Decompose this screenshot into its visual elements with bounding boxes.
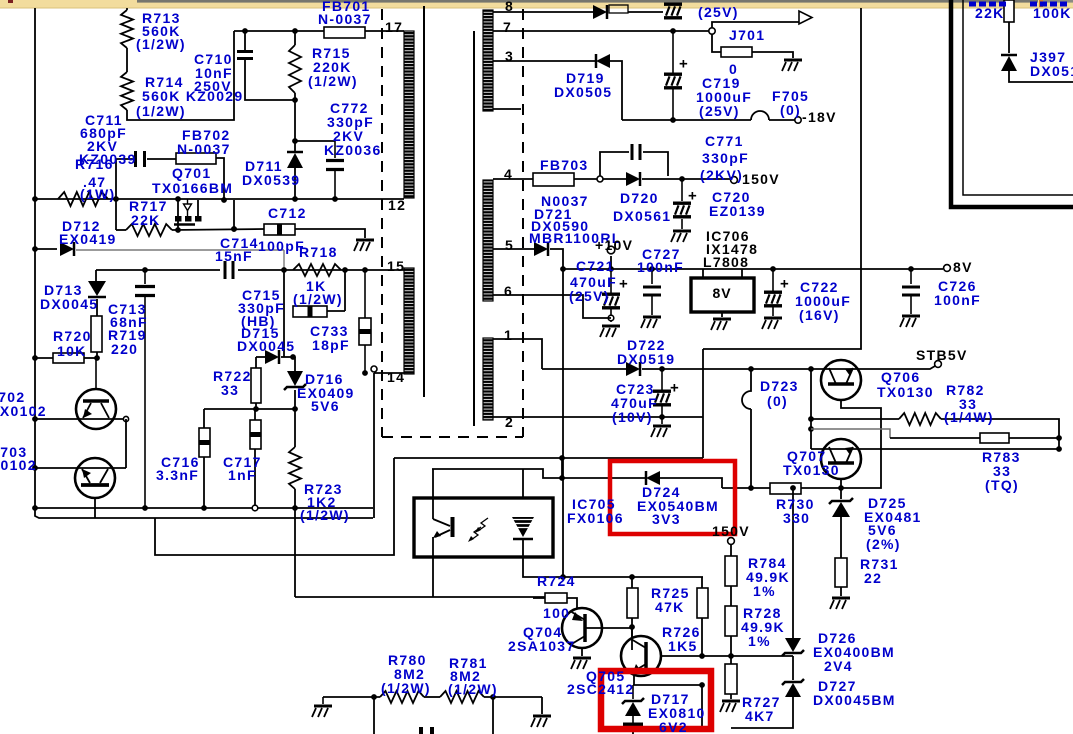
wire R726 bottom	[701, 618, 703, 656]
svg-text:(25V): (25V)	[569, 288, 610, 304]
junction FB702/C712	[231, 226, 237, 232]
junction rail R720	[32, 355, 38, 361]
junction C727 top	[649, 266, 655, 272]
wire D721 right	[550, 249, 563, 269]
junction rail L1	[32, 505, 38, 511]
resistor R731	[835, 558, 847, 587]
wire R725 stub	[631, 577, 633, 588]
svg-text:+: +	[780, 276, 790, 293]
capacitor C720	[681, 179, 683, 201]
junction D717 line right	[699, 682, 705, 688]
junction y449 x1059	[1056, 446, 1062, 452]
svg-text:+: +	[619, 276, 629, 293]
toolbar strip	[0, 0, 1073, 8]
wire R713 top	[126, 8, 128, 10]
wire x374 pin14 drop	[373, 373, 375, 518]
wire pin8 right	[628, 11, 663, 13]
capacitor C719	[672, 31, 674, 73]
junction R725 top	[629, 574, 635, 580]
regulator IC706 box	[691, 278, 754, 312]
resistor R715	[289, 45, 301, 93]
resistor R720	[53, 353, 84, 363]
capacitor C713	[144, 270, 146, 284]
highlight red box D717	[601, 671, 711, 729]
wire LED anode riser inside	[432, 469, 434, 499]
svg-text:3V3: 3V3	[652, 511, 681, 527]
junction R730/D726	[790, 485, 796, 491]
wire C715 right riser	[344, 270, 346, 311]
svg-text:(1/2W): (1/2W)	[300, 507, 350, 523]
svg-text:TX0166BM: TX0166BM	[152, 180, 233, 196]
svg-text:7: 7	[503, 19, 512, 35]
wire y597 line	[295, 596, 545, 598]
junction x811 y419	[808, 416, 814, 422]
transistor Q705 legs	[631, 639, 646, 648]
svg-text:14: 14	[387, 369, 405, 385]
wire R725 top line	[564, 576, 703, 578]
svg-text:(0): (0)	[767, 393, 788, 409]
wire R780-R781	[424, 696, 440, 698]
wire R720 right	[84, 357, 97, 359]
diode D724	[646, 471, 660, 485]
svg-text:(2KV): (2KV)	[700, 167, 743, 183]
svg-text:4K7: 4K7	[745, 708, 775, 724]
wire C710 bottom	[245, 59, 295, 100]
junction R719/R720	[94, 355, 100, 361]
svg-text:2V4: 2V4	[824, 658, 853, 674]
wire D726-D727	[792, 656, 794, 680]
svg-text:(TQ): (TQ)	[985, 477, 1019, 493]
wire C711 to FB702	[147, 158, 176, 160]
svg-text:17: 17	[385, 19, 403, 35]
svg-text:2SA1037: 2SA1037	[508, 638, 575, 654]
wire D724 right	[660, 478, 722, 488]
diode D712	[60, 242, 74, 256]
svg-text:(25V): (25V)	[698, 4, 739, 20]
terminal C771 circle	[597, 176, 603, 182]
svg-text:15: 15	[387, 258, 405, 274]
svg-text:R720: R720	[53, 328, 92, 344]
wire D712 right (gray)	[76, 249, 284, 251]
wire R726 stub	[701, 577, 703, 588]
zener D717	[632, 685, 634, 699]
wire C715 to D715	[283, 311, 285, 357]
wire R713-R714	[126, 48, 128, 72]
resistor R722	[251, 368, 261, 403]
svg-text:0: 0	[729, 61, 738, 77]
wire R728 bottom	[730, 636, 732, 664]
wire D715 right	[281, 356, 295, 358]
svg-text:100K: 100K	[1033, 5, 1072, 21]
junction C720 node	[679, 176, 685, 182]
svg-text:22K: 22K	[975, 5, 1005, 21]
wire R722 top	[255, 357, 257, 368]
svg-text:Q701: Q701	[172, 165, 211, 181]
wire R782 right	[941, 419, 1059, 438]
capacitor C733	[364, 270, 366, 318]
left rail wire	[35, 8, 373, 518]
wire FB701 left	[234, 30, 324, 32]
transistor Q702 bar	[83, 399, 109, 403]
svg-text:(25V): (25V)	[699, 103, 740, 119]
junction D722/D723	[748, 366, 754, 372]
wire y419 line	[811, 418, 899, 420]
junction C721 bottom circle	[608, 315, 614, 321]
svg-text:C721: C721	[576, 258, 615, 274]
svg-text:1nF: 1nF	[228, 467, 257, 483]
wire R781 right	[484, 696, 542, 698]
resistor J102 partial	[1004, 0, 1014, 22]
junction L1 C713	[142, 505, 148, 511]
transistor Q702 circle	[76, 389, 116, 429]
diode D721	[534, 242, 548, 256]
junction pin14 C733	[362, 370, 368, 376]
wire C716 top	[203, 409, 205, 428]
svg-text:18pF: 18pF	[312, 337, 350, 353]
wire x374 bottom drop	[373, 697, 375, 734]
wire R715 top	[294, 31, 296, 45]
resistor R725	[627, 588, 638, 618]
capacitor C711	[134, 151, 137, 167]
junction L1 R723	[292, 505, 298, 511]
transistor Q705 circle	[621, 636, 661, 676]
capacitor C717	[250, 420, 261, 449]
ground C723	[661, 417, 663, 424]
ground R727	[722, 700, 740, 703]
wire Q702 collector	[95, 358, 97, 390]
dashed boundary left	[381, 9, 383, 437]
wire R727 bottom	[730, 694, 732, 699]
wire R780 line left	[323, 696, 380, 698]
ground R781 right	[533, 715, 551, 718]
wire y438 line	[890, 437, 980, 439]
transistor Q703 circle	[75, 458, 115, 498]
svg-text:(1/2W): (1/2W)	[293, 291, 343, 307]
svg-text:(1/4W): (1/4W)	[944, 409, 994, 425]
resistor R726	[697, 588, 708, 618]
wire Q704 base	[585, 627, 632, 629]
svg-text:L7808: L7808	[703, 254, 749, 270]
svg-text:5: 5	[505, 237, 514, 253]
wire R781 ground drop	[541, 697, 543, 714]
svg-text:STB5V: STB5V	[916, 347, 968, 363]
svg-text:(1/2W): (1/2W)	[136, 103, 186, 119]
capacitor C721	[610, 269, 612, 293]
wire pin2 drop x703	[702, 349, 704, 458]
wire D720 right	[642, 178, 731, 180]
mosfet Q701 pin to R717	[177, 221, 179, 230]
junction R730/Q707	[838, 485, 844, 491]
ground C722	[764, 317, 782, 320]
wire pin2 line	[493, 416, 703, 418]
capacitor C772	[334, 141, 336, 158]
capacitor C715	[293, 306, 327, 317]
wire R720 left	[35, 357, 53, 359]
junction y270 left-D715	[281, 267, 287, 273]
svg-text:8V: 8V	[712, 285, 731, 301]
junction x563 y577	[560, 574, 566, 580]
svg-text:TX0102: TX0102	[0, 403, 47, 419]
wire main line y199 (pin12 net)	[35, 198, 404, 200]
svg-text:N-0037: N-0037	[318, 11, 372, 27]
ground C721	[602, 325, 620, 328]
junction y270 C713	[142, 267, 148, 273]
svg-text:150V: 150V	[712, 523, 750, 539]
junction y458 x562	[559, 455, 565, 461]
wire R722 bottom	[255, 403, 257, 409]
optocoupler LED	[512, 517, 534, 537]
transistor Q703 legs	[82, 469, 90, 483]
svg-text:1%: 1%	[753, 583, 776, 599]
wire D727 bottom	[731, 697, 793, 728]
wire Q705 emitter	[633, 673, 635, 685]
capacitor C716	[199, 428, 210, 457]
svg-text:(10V): (10V)	[612, 409, 653, 425]
wire y270 left drop	[95, 270, 97, 281]
junction R717/Q701 pin	[175, 227, 181, 233]
junction x811 y429	[808, 426, 814, 432]
wire D713 bottom	[96, 299, 98, 316]
svg-text:560K KZ0029: 560K KZ0029	[142, 88, 243, 104]
capacitor C770 (25V)	[664, 3, 682, 6]
transistor Q703 bar	[81, 483, 109, 487]
svg-text:DX0505: DX0505	[554, 84, 612, 100]
junction rail at R716	[32, 196, 38, 202]
terminal -18V circle	[795, 117, 801, 123]
svg-text:(2%): (2%)	[866, 536, 901, 552]
fuse box pin8	[609, 5, 628, 13]
svg-text:DX051: DX051	[1030, 63, 1073, 79]
resistor R718	[293, 264, 341, 276]
junction Q702 base x126 circle	[123, 416, 128, 421]
junction y409 D716	[292, 406, 298, 412]
mosfet Q701 pins	[175, 216, 182, 222]
wire +10V rail	[563, 268, 943, 270]
junction rail Q702 base	[32, 416, 38, 422]
terminal 8V circle	[944, 265, 951, 272]
wire D716 bottom	[294, 390, 296, 409]
transistor Q707	[821, 439, 861, 479]
transformer secondary winding pins 1-2	[483, 338, 493, 420]
ground C727	[643, 316, 661, 319]
connector triangle	[799, 11, 812, 24]
wire R723 bottom	[294, 489, 296, 508]
svg-text:1%: 1%	[748, 633, 771, 649]
wire y458 line	[394, 457, 703, 459]
resistor R713	[121, 10, 133, 48]
ground C720	[673, 230, 691, 233]
svg-text:150V: 150V	[742, 171, 780, 187]
wire y656 line	[660, 655, 793, 657]
wire R714 bottom to FB701 riser	[127, 31, 234, 120]
wire D712 drop (gray)	[283, 250, 285, 270]
wire D715 left	[256, 356, 265, 358]
svg-text:10K: 10K	[57, 343, 87, 359]
optocoupler light arrows	[478, 518, 488, 531]
svg-text:(16V): (16V)	[799, 307, 840, 323]
wire Q702 to Q703 link	[125, 419, 127, 468]
junction rail D712	[32, 246, 38, 252]
wire C772 top link	[295, 140, 335, 142]
svg-text:R724: R724	[537, 573, 576, 589]
resistor R781	[440, 691, 484, 703]
wire R783 right	[1009, 437, 1059, 439]
wire F705 right	[769, 119, 795, 121]
resistor R784	[725, 556, 737, 586]
wire D722 right	[642, 368, 811, 370]
zener D727	[785, 683, 801, 697]
wire x563 long drop	[562, 269, 564, 577]
svg-text:1K5: 1K5	[668, 638, 698, 654]
svg-text:DX0045: DX0045	[237, 338, 295, 354]
svg-text:3.3nF: 3.3nF	[156, 467, 199, 483]
wire Q703 base	[35, 467, 126, 469]
wire y449 line	[811, 448, 1059, 450]
wire pin6 line	[493, 295, 611, 318]
wire R715 bottom	[294, 93, 296, 152]
ground R780 left	[322, 697, 324, 704]
terminal pin7 circle	[709, 28, 715, 34]
wire pin4 line	[493, 178, 533, 180]
wire C710 top	[244, 31, 246, 50]
junction -18V C719	[670, 117, 676, 123]
junction FB701 line at C710	[242, 28, 248, 34]
jumper D723	[742, 369, 751, 488]
wire L1 y508	[35, 507, 373, 509]
svg-text:C771: C771	[705, 133, 744, 149]
wire pin14 tap	[374, 372, 404, 374]
svg-text:330: 330	[783, 510, 810, 526]
svg-text:-18V: -18V	[802, 109, 837, 125]
junction y409 R722	[253, 406, 259, 412]
junction R781 right	[490, 694, 496, 700]
svg-text:6: 6	[504, 283, 513, 299]
wire D716 top	[294, 357, 296, 371]
terminal 150V circle top	[731, 177, 738, 184]
optocoupler LED cathode wire	[523, 539, 564, 577]
ferrite bead FB701	[324, 27, 365, 38]
capacitor C727	[651, 269, 653, 284]
wire Q704 collector ground	[581, 648, 583, 656]
optocoupler LED anode wire	[432, 469, 562, 498]
junction y656 R726	[699, 653, 705, 659]
wire y429 line (gray)	[811, 429, 890, 438]
dashed boundary right	[522, 9, 524, 437]
wire Q706 base line	[811, 366, 935, 369]
zener D716	[287, 371, 303, 386]
wire y409 line	[204, 408, 295, 410]
resistor R717	[126, 224, 172, 236]
wire x811 drop	[810, 369, 812, 449]
resistor R727	[725, 664, 737, 694]
junction D722/C723	[659, 366, 665, 372]
diode D719	[596, 54, 610, 68]
wire +10V circle stem	[610, 256, 612, 269]
svg-text:FB703: FB703	[540, 157, 589, 173]
svg-text:R716: R716	[75, 156, 114, 172]
wire R724 left	[533, 597, 545, 599]
wire C715 right link	[327, 310, 345, 312]
wire pin7 line	[493, 30, 709, 32]
wire D719 right	[610, 61, 622, 120]
transformer secondary winding pins 8-3	[483, 10, 493, 111]
junction D715/D716	[290, 354, 296, 360]
wire D711 bottom	[294, 168, 296, 199]
transformer primary winding pins 15-14	[404, 268, 414, 374]
svg-text:N-0037: N-0037	[177, 141, 231, 157]
wire D724 line left	[562, 477, 646, 479]
wire x295 drop	[294, 508, 296, 597]
svg-text:DX0045: DX0045	[40, 296, 98, 312]
resistor R714	[121, 72, 133, 110]
resistor R780	[380, 691, 424, 703]
junction pin2 C723	[659, 414, 665, 420]
ferrite bead FB702	[176, 153, 216, 164]
wire R725 bottom	[631, 618, 633, 640]
wire L3 y555	[155, 458, 394, 555]
junction C712 line x234	[231, 226, 237, 232]
diode D718	[593, 5, 607, 19]
transistor Q706	[821, 360, 861, 400]
D717 bottom bar	[623, 723, 643, 728]
transistor Q702 legs	[83, 403, 91, 418]
node C710/R715 junction	[292, 97, 298, 103]
mosfet Q701 pin stub right	[197, 200, 199, 216]
wire D717 line	[633, 684, 702, 686]
svg-text:(1W): (1W)	[80, 186, 116, 202]
svg-text:6V2: 6V2	[659, 719, 688, 734]
transformer core line right	[473, 31, 475, 426]
capacitor C714	[224, 261, 227, 279]
mosfet Q701 arrow	[184, 204, 192, 211]
svg-text:100nF: 100nF	[637, 259, 684, 275]
wire pin5 line	[493, 248, 534, 250]
mosfet Q701 source bar	[174, 223, 195, 225]
svg-text:8V: 8V	[953, 259, 973, 275]
terminal +10V circle	[607, 246, 615, 254]
svg-text:EX0419: EX0419	[59, 231, 117, 247]
wire D712 left	[35, 248, 57, 250]
transistor Q704 circle	[562, 608, 602, 648]
svg-text:100nF: 100nF	[934, 292, 981, 308]
svg-text:D720: D720	[620, 190, 659, 206]
diode D715	[265, 350, 279, 364]
svg-text:47K: 47K	[655, 599, 685, 615]
wire Q707 emitter	[840, 479, 842, 499]
svg-text:R718: R718	[299, 244, 338, 260]
transformer secondary winding pins 4-6	[483, 180, 493, 301]
wire R730 right	[801, 487, 841, 489]
svg-text:D723: D723	[760, 378, 799, 394]
junction L1 C716	[201, 505, 207, 511]
wire reg ground stub	[721, 312, 723, 317]
label fragment top right	[969, 2, 976, 7]
dashed boundary bottom	[382, 436, 523, 438]
fuse F705	[751, 111, 769, 120]
capacitor C726	[910, 269, 912, 284]
junction R730/D723	[748, 485, 754, 491]
wire pin3 line	[493, 60, 596, 62]
junction +10V x563	[560, 266, 566, 272]
wire reg output stub	[741, 269, 743, 278]
wire Q705 collector	[631, 627, 633, 650]
resistor R730	[770, 483, 801, 494]
junction FB701 line at R715	[292, 28, 298, 34]
mosfet Q701 pin stub mid	[187, 211, 189, 217]
resistor R719	[91, 316, 102, 352]
ground Q704	[573, 657, 591, 660]
junction y656 R728	[728, 653, 734, 659]
